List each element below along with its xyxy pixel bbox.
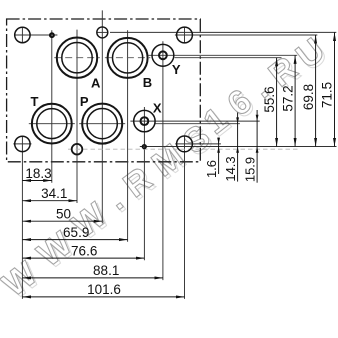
row small circle 2 (dashed gray): [68, 148, 300, 150]
bolt hole bottom-right: [177, 136, 193, 152]
dimension 34.1: [22, 200, 77, 202]
dimension 14.3 (vertical, outside arrows): [237, 113, 239, 182]
baseline row datum: [140, 146, 337, 148]
svg-text:88.1: 88.1: [93, 263, 119, 278]
svg-text:14.3: 14.3: [223, 156, 238, 181]
svg-text:X: X: [153, 100, 162, 115]
dimension 101.6: [22, 296, 184, 298]
svg-text:34.1: 34.1: [41, 186, 67, 201]
svg-text:T: T: [31, 94, 39, 109]
plate outline (dash-dot): [7, 19, 201, 162]
svg-text:15.9: 15.9: [242, 157, 257, 182]
svg-text:1.6: 1.6: [204, 160, 219, 178]
bolt hole bottom-left: [15, 136, 30, 151]
svg-text:71.5: 71.5: [320, 82, 335, 108]
svg-text:B: B: [143, 75, 152, 90]
port Y: [152, 44, 174, 66]
dimension 71.5 (vertical): [334, 32, 336, 146]
svg-text:18.3: 18.3: [25, 166, 51, 181]
svg-text:76.6: 76.6: [71, 243, 97, 258]
dimension 69.8 (vertical): [315, 35, 317, 147]
svg-text:A: A: [91, 75, 101, 90]
bolt hole top-right: [177, 27, 193, 43]
centerline column B: [127, 30, 129, 242]
svg-text:Y: Y: [172, 62, 181, 77]
dimension 88.1: [22, 277, 163, 279]
centerline row top bolts: [15, 34, 58, 36]
small circle top: [97, 27, 108, 38]
bolt hole top-left: [15, 27, 30, 42]
centerline column P: [101, 10, 103, 223]
centerline column T: [51, 30, 53, 183]
port B: [108, 38, 148, 78]
centerline column right bolts: [184, 27, 186, 43]
centerline row X: [130, 120, 259, 122]
centerline row A B: [54, 57, 100, 59]
svg-text:101.6: 101.6: [87, 282, 121, 297]
centerline column X: [143, 107, 145, 260]
centerline row bottom bolts: [13, 143, 31, 145]
centerline column left bolts: [21, 27, 23, 43]
svg-text:57.2: 57.2: [280, 85, 295, 111]
dimension 1.6 (vertical, outside arrows): [218, 138, 220, 175]
centerline row T P: [29, 123, 75, 125]
dimension 18.3: [22, 180, 51, 182]
dimension 15.9 (vertical, outside arrows): [256, 110, 258, 183]
dimension 65.9: [22, 239, 127, 241]
dimension 57.2 (vertical): [294, 55, 296, 146]
centerline column A: [76, 30, 78, 203]
svg-text:55.6: 55.6: [262, 86, 277, 112]
dimension 50: [22, 220, 102, 222]
centerline column Y: [162, 41, 164, 280]
dimension 55.6 (vertical): [276, 58, 278, 147]
svg-text:69.8: 69.8: [301, 84, 316, 110]
port X: [134, 110, 155, 131]
port A: [57, 38, 97, 78]
centerline row top small circle: [97, 31, 108, 33]
port T: [32, 104, 72, 144]
datum dot top: [50, 33, 54, 37]
svg-text:P: P: [80, 94, 89, 109]
svg-text:50: 50: [56, 207, 71, 222]
svg-text:65.9: 65.9: [63, 225, 89, 240]
dimension 76.6: [22, 257, 144, 259]
centerline row Y: [148, 54, 297, 56]
datum dot bottom: [143, 145, 147, 149]
port P: [82, 104, 122, 144]
small circle bottom: [72, 144, 83, 155]
